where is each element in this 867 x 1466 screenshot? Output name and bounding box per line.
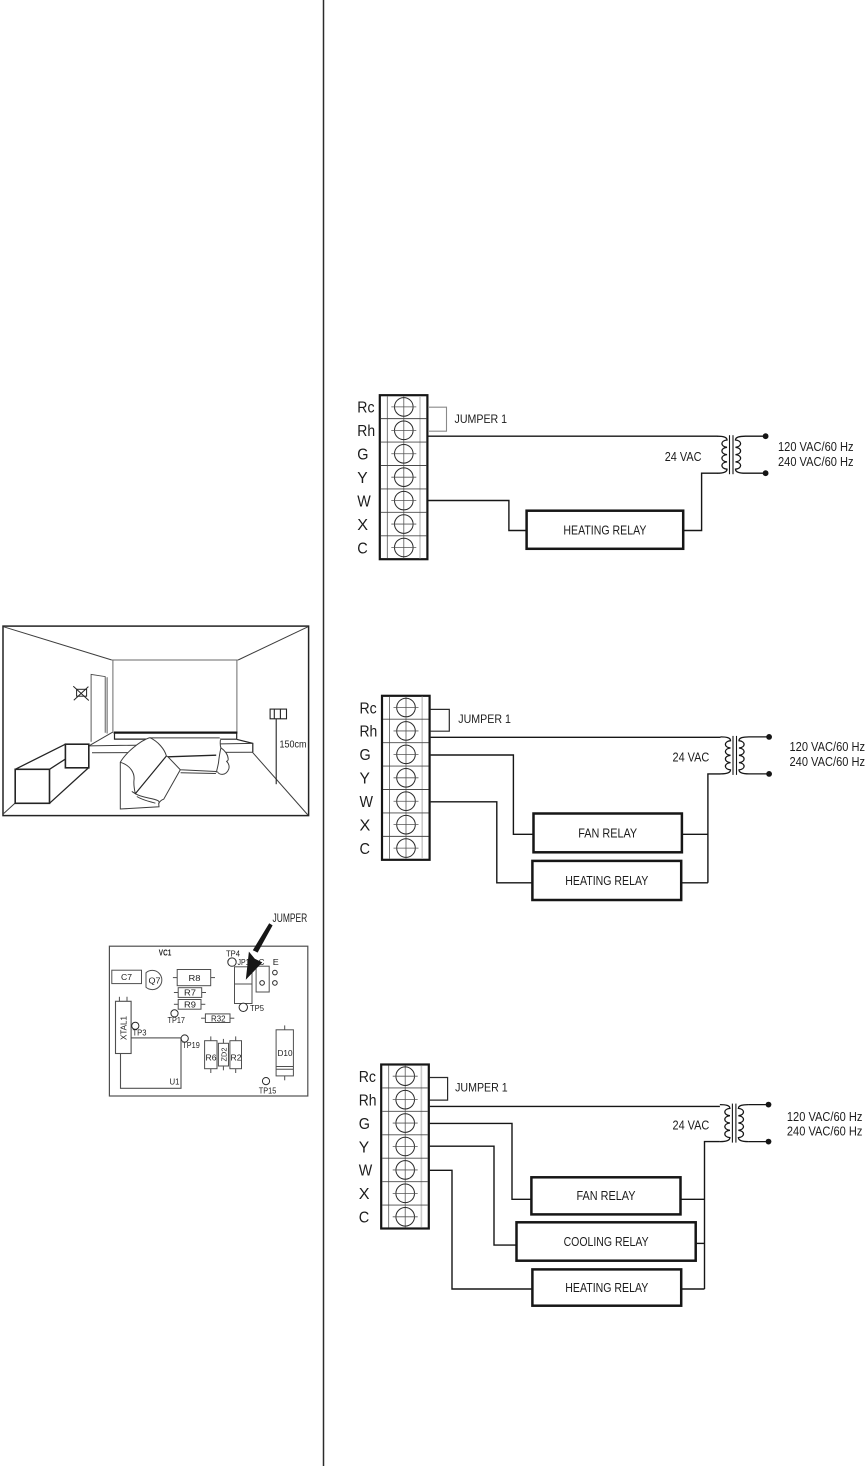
- svg-text:240 VAC/60 Hz: 240 VAC/60 Hz: [787, 1124, 863, 1139]
- resistor R9: [174, 999, 205, 1009]
- resistor R32: [201, 1013, 234, 1023]
- crossed-out thermostat location: [73, 686, 89, 700]
- sofa arm inner curl: [120, 762, 159, 803]
- wire Rh to transformer: [431, 736, 721, 738]
- floor line left upper segment: [89, 732, 113, 746]
- cabinet end box: [65, 744, 88, 768]
- test point TP19: [181, 1035, 200, 1050]
- svg-text:E: E: [273, 957, 279, 967]
- fan relay K1: [534, 814, 682, 853]
- back wall right edge: [236, 660, 238, 733]
- PCB board outline: [109, 946, 307, 1096]
- sofa backrest bottom edge: [168, 755, 216, 757]
- DIAGRAM 1 : heat-only hookup: [357, 395, 853, 559]
- floor line left (wall base): [4, 803, 16, 814]
- heating relay K2: [532, 861, 681, 900]
- crystal XTAL1: [116, 997, 132, 1054]
- jumper header JP1: [235, 957, 253, 1004]
- svg-text:HEATING RELAY: HEATING RELAY: [565, 1281, 649, 1295]
- jumper 1 bracket (Rc-Rh): [428, 407, 447, 431]
- svg-text:TP19: TP19: [182, 1040, 200, 1050]
- zener diode ZD2: [218, 1039, 228, 1070]
- terminal block TB1: [357, 395, 427, 559]
- fan relay K1: [531, 1177, 680, 1214]
- svg-text:TP3: TP3: [133, 1027, 147, 1037]
- svg-text:COOLING RELAY: COOLING RELAY: [564, 1235, 650, 1249]
- svg-text:R9: R9: [184, 999, 196, 1009]
- resistor R7: [174, 988, 206, 998]
- svg-text:D10: D10: [278, 1048, 293, 1058]
- wire W to heating relay: [430, 1170, 533, 1289]
- ceiling corner line left: [4, 627, 112, 660]
- diode D10: [276, 1025, 293, 1080]
- wire Rh to transformer: [428, 435, 717, 437]
- pin E pads: [273, 957, 280, 985]
- sofa seat front: [168, 757, 216, 774]
- transformer T3: [720, 1102, 772, 1145]
- transformer T2: [721, 734, 773, 777]
- jumper 1 bracket (Rc-Rh): [430, 709, 449, 731]
- sofa chaise ridge: [150, 738, 168, 757]
- capacitor C7: [112, 970, 142, 983]
- wire heating relay to common return: [681, 1288, 704, 1290]
- test point TP15: [259, 1078, 277, 1096]
- page column divider rule: [323, 0, 325, 1466]
- svg-text:U1: U1: [170, 1077, 180, 1087]
- sofa right armrest inner edge: [216, 748, 221, 773]
- sofa right armrest roll: [217, 740, 229, 774]
- heating relay K3: [532, 1269, 681, 1305]
- platform stage top edge (thick): [114, 731, 238, 733]
- svg-text:120 VAC/60 Hz: 120 VAC/60 Hz: [790, 739, 866, 754]
- svg-text:240 VAC/60 Hz: 240 VAC/60 Hz: [790, 754, 866, 769]
- jumper 1 bracket (Rc-Rh): [429, 1078, 447, 1101]
- platform step edges: [89, 743, 253, 752]
- svg-text:24 VAC: 24 VAC: [665, 449, 702, 464]
- sofa arm/backrest ridge seam: [135, 756, 166, 794]
- FIGURE: thermostat room placement: [3, 626, 309, 816]
- test point TP5: [239, 1003, 264, 1013]
- back wall left edge: [112, 660, 114, 732]
- test point TP4: [226, 949, 240, 967]
- sofa chaise outline: [120, 738, 180, 809]
- wire W to heating relay: [431, 802, 533, 883]
- cabinet perspective edges: [15, 744, 88, 803]
- transistor pad box with C pin: [256, 957, 269, 992]
- transistor Q7: [146, 970, 162, 989]
- svg-text:C7: C7: [121, 972, 132, 982]
- sofa back top edge: [150, 737, 220, 739]
- svg-text:R7: R7: [184, 988, 196, 998]
- svg-text:TP15: TP15: [259, 1085, 277, 1095]
- svg-text:VC1: VC1: [159, 947, 172, 957]
- svg-text:XTAL1: XTAL1: [119, 1016, 129, 1040]
- svg-text:ZD2: ZD2: [219, 1048, 228, 1062]
- FIGURE: PCB jumper location: [109, 912, 307, 1096]
- floor line right: [253, 752, 308, 815]
- wire W to heating relay: [428, 501, 526, 531]
- svg-text:240 VAC/60 Hz: 240 VAC/60 Hz: [778, 454, 854, 469]
- wire transformer secondary return bus: [708, 774, 721, 883]
- svg-text:150cm: 150cm: [280, 739, 307, 751]
- room outline frame: [3, 626, 309, 816]
- svg-text:JUMPER: JUMPER: [273, 912, 308, 925]
- wire Y to cooling relay: [430, 1146, 517, 1245]
- svg-text:120 VAC/60 Hz: 120 VAC/60 Hz: [787, 1109, 863, 1124]
- svg-text:JUMPER 1: JUMPER 1: [458, 712, 511, 726]
- platform band bottom edge and side edges: [115, 733, 253, 752]
- svg-text:HEATING RELAY: HEATING RELAY: [563, 524, 647, 538]
- cabinet front box: [15, 769, 49, 803]
- terminal block TB2: [360, 696, 430, 860]
- resistor R2: [230, 1036, 242, 1073]
- svg-text:24 VAC: 24 VAC: [673, 1118, 710, 1133]
- svg-text:TP5: TP5: [250, 1003, 264, 1013]
- svg-text:24 VAC: 24 VAC: [673, 750, 710, 765]
- svg-text:120 VAC/60 Hz: 120 VAC/60 Hz: [778, 439, 854, 454]
- wire G to fan relay: [430, 1123, 532, 1199]
- IC U1: [121, 1038, 182, 1088]
- wire transformer secondary return bus: [705, 1142, 720, 1289]
- test point TP3: [132, 1022, 147, 1037]
- svg-text:R32: R32: [211, 1013, 226, 1023]
- svg-text:R6: R6: [206, 1053, 217, 1063]
- svg-text:HEATING RELAY: HEATING RELAY: [565, 874, 649, 888]
- heating relay K1: [527, 511, 684, 549]
- DIAGRAM 3 : heat/cool with fan hookup: [359, 1065, 863, 1306]
- DIAGRAM 2 : heat with fan hookup: [360, 696, 866, 900]
- test point TP17: [168, 1010, 186, 1025]
- wire Rh to transformer: [430, 1105, 720, 1107]
- transformer T1: [717, 433, 769, 476]
- jumper callout arrow: [246, 923, 273, 980]
- cooling relay K2: [517, 1222, 696, 1260]
- sofa silhouette (occluder): [120, 738, 229, 809]
- resistor R6: [205, 1036, 217, 1073]
- svg-text:R8: R8: [189, 973, 201, 983]
- wire heating relay to transformer secondary: [683, 473, 717, 530]
- resistor R8: [173, 970, 215, 986]
- wire fan relay to common return: [682, 833, 708, 835]
- terminal block TB3: [359, 1065, 429, 1229]
- svg-text:FAN RELAY: FAN RELAY: [578, 827, 638, 841]
- wall thermostat at 150cm: [270, 709, 286, 784]
- ceiling corner line right: [238, 627, 308, 660]
- svg-text:Q7: Q7: [149, 975, 161, 985]
- door on left wall: [91, 674, 107, 741]
- svg-text:TP17: TP17: [168, 1015, 186, 1025]
- wire heating relay to common return: [681, 882, 708, 884]
- svg-text:JUMPER 1: JUMPER 1: [455, 1081, 508, 1095]
- svg-text:R2: R2: [231, 1053, 242, 1063]
- back wall top edge: [112, 659, 238, 661]
- wire cooling relay to common return: [696, 1242, 705, 1244]
- svg-text:JUMPER 1: JUMPER 1: [455, 412, 508, 426]
- wire fan relay to common return: [681, 1198, 705, 1200]
- wire G to fan relay: [431, 755, 534, 834]
- svg-text:FAN RELAY: FAN RELAY: [577, 1189, 637, 1203]
